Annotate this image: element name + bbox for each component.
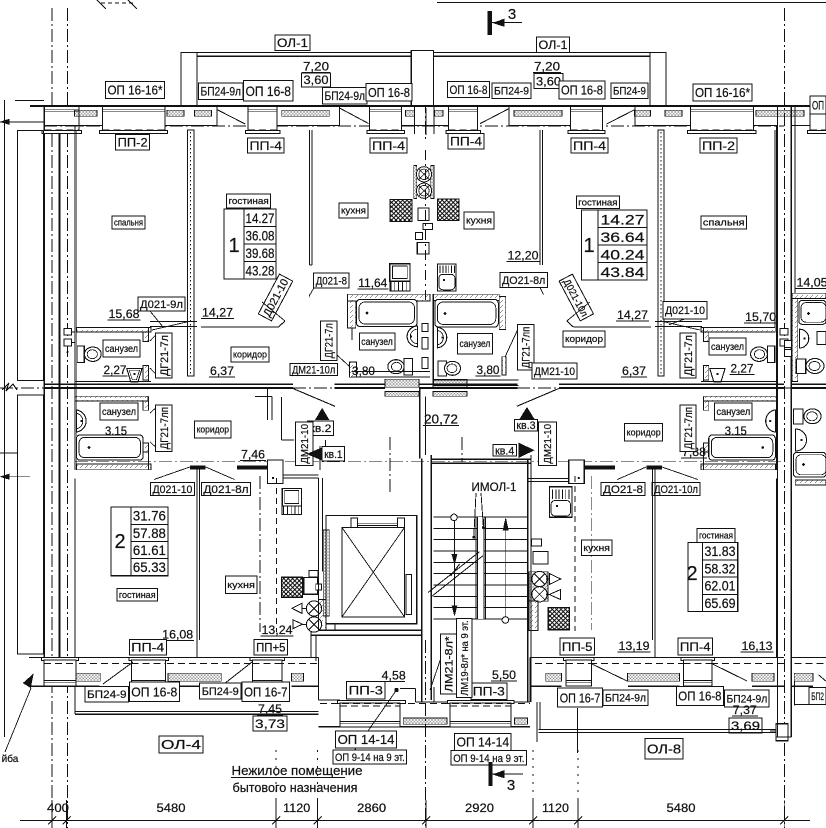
axis mark y=476.7 with arrow [0, 476, 30, 478]
dashed slab line bottom right [535, 662, 784, 664]
label ПП-3 left [347, 682, 385, 700]
svg-text:14,27: 14,27 [617, 308, 648, 322]
svg-text:кв.3: кв.3 [516, 420, 535, 432]
wall partition kv3 [658, 130, 664, 376]
label ОЛ-1 right [537, 37, 570, 53]
label Д021-10 right + leader [663, 302, 707, 320]
top wall outer face [30, 105, 826, 107]
svg-text:3: 3 [508, 6, 516, 23]
label ДГ21-7лп right rot [680, 405, 696, 451]
svg-text:57.88: 57.88 [133, 526, 166, 541]
svg-text:ОП 16-8: ОП 16-8 [678, 689, 721, 704]
center wall between kitchens [413, 106, 415, 134]
svg-text:Д021-10: Д021-10 [153, 484, 193, 496]
wc kv2 bottom wall [75, 380, 151, 382]
top left tick marks [97, 0, 106, 9]
radiators right [780, 329, 788, 335]
kv4 fans [532, 571, 547, 586]
svg-text:36.64: 36.64 [601, 230, 646, 245]
svg-text:коридор: коридор [565, 334, 603, 344]
svg-text:7,37: 7,37 [733, 703, 757, 717]
right sink [799, 329, 808, 348]
kv4 stove [548, 608, 569, 630]
label ОЛ-1 left [275, 35, 310, 51]
svg-text:61.61: 61.61 [133, 543, 166, 558]
label санузел kv2 [359, 333, 395, 350]
svg-text:ЛМ19-8л* на 9 эт.: ЛМ19-8л* на 9 эт. [460, 620, 471, 695]
label гостиная kv4 [697, 528, 735, 542]
window ПП-4 bottom kv4 [681, 657, 715, 660]
label кухня kv2 [339, 203, 368, 218]
label Д021-10 rotated (door living) [258, 274, 292, 321]
label БП24-9л 2 [323, 88, 368, 105]
door leaf kv3 entry [517, 389, 559, 407]
window partial bottom left [41, 657, 78, 660]
label ПП+5 kv1 [254, 639, 287, 655]
label кухня kv1 [225, 576, 257, 594]
corridor top wall band [431, 459, 531, 461]
label ОП.16-7 br [558, 688, 603, 707]
bedroom bottom wall right [655, 321, 702, 323]
bathtub kv1 [76, 435, 143, 460]
axis dashdot x=462 short [461, 437, 463, 462]
label ПП-4 right kitchen [448, 134, 484, 150]
wall left of kv3 bath [432, 294, 434, 386]
hatch sills top [75, 110, 98, 116]
svg-text:14,05: 14,05 [797, 276, 826, 290]
svg-text:14,27: 14,27 [202, 306, 233, 320]
svg-text:ОП 16-8: ОП 16-8 [561, 83, 603, 98]
svg-text:кв.1: кв.1 [324, 449, 342, 461]
bathroom kv2 door wall [350, 362, 357, 377]
svg-text:7,46: 7,46 [241, 448, 265, 462]
door leaf Д021-10 horizontal [201, 326, 279, 328]
svg-text:ОП 16-7: ОП 16-7 [560, 690, 601, 705]
window ПП+5 bottom kv1 [250, 657, 285, 660]
svg-text:БП24-9: БП24-9 [613, 86, 646, 98]
window ПП-4 top right (kitchen) [449, 106, 478, 133]
toilet wc kv2 [77, 346, 84, 362]
bath top (kv2 wc) walls [74, 328, 76, 471]
svg-text:ПП-4: ПП-4 [131, 641, 164, 655]
label 3,60 left [302, 73, 331, 87]
label коридор kv2 [231, 347, 269, 362]
label ЛМ19-8л* на 9 эт. rot [457, 618, 472, 697]
svg-text:кухня: кухня [466, 216, 492, 226]
svg-text:43.84: 43.84 [601, 265, 646, 280]
kv1 kitchen dashed line [276, 478, 278, 632]
svg-text:гостиная: гостиная [699, 531, 733, 541]
vent stack rects center wall [418, 208, 429, 221]
svg-text:15,68: 15,68 [109, 307, 140, 321]
elevator door blocks [351, 518, 358, 527]
stair bay walls [318, 658, 320, 701]
svg-text:ДГ21-7л: ДГ21-7л [683, 335, 695, 376]
svg-text:3,60: 3,60 [536, 74, 561, 88]
top edge line [437, 2, 826, 4]
vestibule block kv1 [268, 460, 284, 484]
kitchen east wall kv3 [541, 130, 543, 265]
kv1 door leaders [154, 467, 190, 480]
bathtub kv2 [357, 300, 418, 327]
label ДО21-10л kv4 [652, 482, 700, 495]
svg-text:кухня: кухня [583, 543, 610, 553]
label ПП-4 left kitchen [370, 138, 407, 153]
svg-text:санузел: санузел [361, 337, 393, 348]
stair shaft right wall [527, 459, 529, 703]
wall bedroom west [74, 126, 76, 328]
svg-text:7,20: 7,20 [534, 60, 560, 74]
svg-text:65.33: 65.33 [133, 560, 166, 575]
axis dashdot y=461.7 [75, 461, 784, 463]
elevator car [342, 527, 405, 617]
svg-text:ОП 16-16*: ОП 16-16* [695, 85, 750, 100]
axis dashdot x=390 short [389, 437, 391, 492]
kv4 corridor label [625, 423, 663, 441]
svg-text:2860: 2860 [357, 801, 386, 815]
kv1 kitchen/living wall [196, 469, 198, 657]
label ДГ21-7лп kv3 rot [518, 325, 534, 371]
door jambs top wall [216, 106, 218, 126]
axis mark y=121.8 with arrow [0, 121, 51, 123]
toilet kv2 [404, 359, 413, 376]
svg-text:БП2: БП2 [811, 691, 824, 703]
label гостиная left [227, 194, 271, 208]
label 3,73 [253, 716, 287, 731]
label спальня left [112, 216, 145, 229]
elevator shaft [326, 516, 417, 624]
label ЛМ21-8л* rot [440, 634, 456, 694]
svg-text:гостиная: гостиная [578, 197, 617, 207]
svg-text:11,64: 11,64 [358, 276, 387, 290]
label ПП-2 right [700, 138, 737, 153]
svg-text:ПП-2: ПП-2 [702, 139, 735, 153]
kv1 top wall plates [190, 466, 206, 470]
vent shaft hatch right of center [433, 379, 467, 387]
svg-text:Д021-9л: Д021-9л [140, 299, 183, 311]
window ПП-4 top right (living) [571, 106, 603, 133]
apartment 2 table kv1 [111, 507, 168, 576]
sink kv1 bath [76, 410, 86, 432]
label ПП-3 right [471, 683, 507, 699]
svg-text:2,27: 2,27 [731, 362, 754, 376]
label ДГ21-7л kv2 rotated [320, 321, 337, 360]
label ОП 9-14 на 9 эт. left [333, 750, 407, 764]
apartment 1 table left [224, 209, 276, 279]
svg-text:коридор: коридор [627, 427, 661, 437]
label 3,60 right [534, 74, 563, 89]
kv1 boxes right of stove [304, 578, 318, 595]
svg-text:ОЛ-8: ОЛ-8 [647, 741, 681, 756]
svg-text:2920: 2920 [465, 801, 494, 815]
svg-text:ДГ21-7л: ДГ21-7л [159, 335, 171, 376]
svg-text:БП24-9л: БП24-9л [325, 89, 366, 103]
vent shaft hatch left of center [385, 379, 419, 387]
right section wall [777, 106, 779, 737]
dim extension ticks [51, 800, 53, 828]
cluster right bottom hatch [701, 464, 775, 470]
bathtub kv3 [435, 300, 499, 328]
kv1 sink [282, 488, 301, 506]
kv1 stove [282, 577, 303, 597]
top wall inner face segments [44, 125, 102, 127]
label санузел wc kv2 [103, 340, 140, 357]
bedroom bottom wall [150, 321, 197, 323]
svg-text:14.27: 14.27 [601, 213, 645, 228]
wall below elevator [311, 630, 421, 632]
sink kv2 bath [407, 326, 417, 347]
bathroom kv3 right wall hatch [499, 297, 506, 330]
label ОЛ-4 [159, 736, 203, 753]
svg-text:кв.4: кв.4 [495, 445, 514, 457]
right toilet [796, 359, 806, 374]
svg-text:кухня: кухня [227, 580, 255, 590]
stair treads [433, 516, 527, 518]
label ОП 16-8 4 [559, 81, 605, 99]
wall bedroom/living partition x191-197 [188, 130, 194, 376]
svg-text:ПП-2: ПП-2 [118, 136, 148, 150]
svg-text:6,37: 6,37 [210, 364, 234, 378]
svg-text:ДМ21-10: ДМ21-10 [300, 424, 311, 464]
svg-text:ПП-4: ПП-4 [250, 139, 283, 153]
leader to нежилое [345, 690, 397, 764]
svg-text:3: 3 [507, 777, 515, 794]
stove kv3 [438, 199, 460, 221]
window ПП-2 top left [102, 106, 165, 133]
marker kv.1 [308, 448, 323, 460]
break zigzag [2, 383, 17, 391]
mid wall band y383.5-388.5 [44, 384, 293, 386]
elevator counterweight [406, 574, 411, 614]
label ДО21-8л + leader [500, 273, 547, 288]
svg-text:ПП-3: ПП-3 [473, 685, 505, 699]
svg-text:31.83: 31.83 [705, 544, 736, 559]
washbasin kv2 wc [127, 368, 142, 382]
label ОП 16-8 bl [129, 682, 179, 701]
right bath west furring [792, 299, 798, 382]
window partial far right [810, 106, 826, 133]
right washer [817, 332, 826, 345]
svg-text:ОП 16-8: ОП 16-8 [131, 684, 177, 699]
kv4 vent hatch band [529, 572, 548, 602]
vestibule lines kv4 [528, 477, 569, 479]
svg-text:ПП-4: ПП-4 [372, 139, 405, 153]
svg-text:гостиная: гостиная [119, 590, 156, 600]
axis dashdot y=125.9 short [44, 125, 100, 127]
label санузел kv4 [715, 403, 753, 420]
label ПП-4 right living [571, 138, 608, 153]
left section edge wall [3, 100, 5, 737]
label ПП-2 left [116, 135, 150, 151]
left room rect top [18, 131, 44, 381]
svg-text:ДО21-8л: ДО21-8л [502, 275, 545, 287]
label санузел wc kv3 [709, 338, 746, 355]
svg-text:3,73: 3,73 [255, 717, 285, 731]
svg-text:3,69: 3,69 [731, 719, 760, 733]
svg-text:ОП: ОП [812, 98, 824, 112]
svg-text:13,24: 13,24 [262, 623, 293, 637]
svg-text:16,13: 16,13 [742, 639, 773, 653]
svg-text:Д021-10: Д021-10 [665, 305, 705, 317]
svg-text:ДГ21-7лп: ДГ21-7лп [521, 327, 533, 369]
svg-text:16,08: 16,08 [162, 627, 193, 641]
kv1 wall x318-322 [318, 478, 320, 631]
svg-text:БП24-9: БП24-9 [87, 689, 127, 701]
apartment 2 table kv4 [703, 543, 738, 612]
corridor left walls [419, 389, 421, 459]
svg-text:ПП-4: ПП-4 [680, 640, 711, 654]
label ОП 16-7 bl [242, 682, 290, 701]
wall bedroom east kv3 [776, 126, 778, 328]
svg-text:санузел: санузел [711, 342, 744, 353]
kv1 vent dh block [319, 600, 326, 631]
label ОП partial right [810, 96, 826, 114]
window ПП-4 bottom kv1 [129, 657, 168, 660]
window ПП-4 top left (kitchen) [370, 106, 402, 133]
party wall left verticals [43, 106, 45, 657]
svg-text:ОП 16-8: ОП 16-8 [450, 83, 488, 97]
dashed slab right corner [794, 662, 826, 664]
svg-text:ОП 16-16*: ОП 16-16* [108, 83, 163, 98]
label ДО21-8 kv4 [601, 482, 645, 495]
kv4 kitchen/living wall [654, 469, 656, 657]
label ОЛ-8 [645, 739, 683, 759]
washbasin wc kv3 [710, 368, 725, 382]
axis dashdot along top wall face [44, 125, 784, 127]
label кухня kv4 [581, 540, 612, 555]
entry vestibule walls left [266, 389, 268, 420]
bath cluster top wall hatch [77, 328, 151, 333]
dashed slab line bottom left [46, 662, 319, 664]
elevator hall left wall [325, 516, 327, 631]
svg-text:ОЛ-4: ОЛ-4 [161, 737, 201, 752]
svg-text:ОП 16-8: ОП 16-8 [368, 85, 410, 100]
stair window ПП-3 left (Wa) [337, 700, 405, 703]
svg-text:ДМ21-10л: ДМ21-10л [292, 364, 335, 376]
window ПП-4 top left (living) [248, 106, 277, 133]
svg-text:31.76: 31.76 [133, 509, 166, 524]
svg-text:ПП-3: ПП-3 [349, 684, 384, 698]
stair bay bottom wall [319, 726, 531, 728]
svg-text:5480: 5480 [667, 801, 696, 815]
toilet kv3 [438, 361, 447, 376]
label ОП 14-14 [455, 733, 512, 750]
right bath hatch [792, 293, 826, 298]
kitchen door opening kv2 [310, 264, 313, 266]
label БП24-9 4 [611, 83, 648, 99]
section mark 3 top [488, 11, 492, 35]
svg-text:6,37: 6,37 [622, 364, 646, 378]
center axis in wall [424, 150, 426, 300]
label БП24-9л far right [809, 688, 826, 705]
kv4 axis dashdot [590, 476, 592, 630]
label Д021-8л kv1 [201, 482, 250, 495]
label Д021-9л + leader [138, 297, 185, 311]
apartment 1 table right [581, 210, 647, 280]
leader мба with arrow [5, 688, 31, 752]
label ПП-4 kv4 [678, 638, 713, 655]
marker kv.4 [519, 443, 534, 457]
svg-text:58.32: 58.32 [705, 561, 736, 576]
stair shaft left wall [421, 459, 423, 703]
kv1 entry wall + door [319, 446, 321, 470]
label ПП-5 kv4 [560, 638, 595, 655]
stair up arrow [505, 528, 507, 617]
svg-text:ПП-4: ПП-4 [450, 135, 482, 149]
label БП24-9 3 [492, 83, 531, 99]
bathroom kv3 door + wall [502, 357, 506, 375]
sink kv2 kitchen [390, 264, 410, 282]
svg-text:санузел: санузел [460, 339, 491, 350]
svg-text:1120: 1120 [542, 801, 569, 815]
svg-text:ДМ21-10: ДМ21-10 [543, 424, 554, 464]
label ОП 16-16* right [693, 84, 752, 101]
kv1 fans [306, 601, 321, 616]
radiators on party wall [64, 329, 72, 335]
label ДМ21-10л kv2 [290, 364, 337, 376]
stair rails [477, 517, 484, 619]
svg-text:ДО21-8: ДО21-8 [603, 484, 643, 496]
svg-text:3,80: 3,80 [477, 363, 500, 377]
right section bottom wall [776, 736, 791, 738]
marker kv.2 [316, 409, 329, 420]
svg-text:ПП-5: ПП-5 [562, 640, 593, 654]
label санузел kv1 [100, 403, 138, 420]
stair break line [428, 552, 479, 593]
svg-text:БП24-9л: БП24-9л [201, 85, 242, 99]
kv4 top wall plates [646, 466, 662, 470]
label ОП 14-14 left [336, 731, 397, 748]
label ОП 16-8 3 [448, 82, 490, 98]
bathroom kv3 top wall hatch [433, 294, 499, 300]
label ОП 16-8 [244, 81, 294, 102]
bottom wall inner face [29, 657, 129, 659]
label ДГ21-7лп rot [156, 405, 172, 451]
label санузел kv3 [458, 333, 493, 353]
svg-text:2: 2 [114, 531, 125, 553]
marker kv.3 [520, 408, 534, 419]
right lower bathtub [794, 453, 826, 478]
svg-text:39.68: 39.68 [246, 246, 275, 261]
svg-text:43.28: 43.28 [246, 264, 275, 279]
svg-text:Нежилое помещение: Нежилое помещение [232, 763, 363, 778]
svg-text:15,70: 15,70 [745, 310, 776, 324]
axis dashdot y=388 door gaps [293, 387, 335, 389]
label коридор kv3 [563, 331, 605, 347]
sink kv3 kitchen [438, 264, 457, 291]
svg-text:кухня: кухня [341, 206, 366, 216]
bathroom kv2 top wall hatch [348, 294, 431, 301]
bathroom kv2 left wall hatch [348, 301, 356, 328]
kv4 kitchen dashed line [574, 476, 576, 631]
svg-text:спальня: спальня [114, 218, 143, 228]
kv1 axis dashdot [259, 476, 261, 632]
kv4 sink [550, 487, 573, 518]
label спальня right [701, 216, 747, 229]
label БП24-9л br [603, 690, 648, 706]
svg-text:400: 400 [47, 801, 69, 815]
right lower toilet [794, 409, 804, 424]
svg-text:ОЛ-1: ОЛ-1 [539, 38, 568, 52]
sink kv4 bath [766, 410, 776, 432]
axis line right (x=784.3) [783, 8, 785, 828]
svg-text:ДГ21-7лп: ДГ21-7лп [159, 407, 171, 449]
right lower bath hatch [795, 480, 826, 485]
balcony ОЛ-8 outline [539, 729, 788, 731]
left section top wall [15, 100, 44, 102]
sink kv3 bath [438, 327, 447, 348]
axis line 2 (x=67.5) [67, 8, 69, 828]
